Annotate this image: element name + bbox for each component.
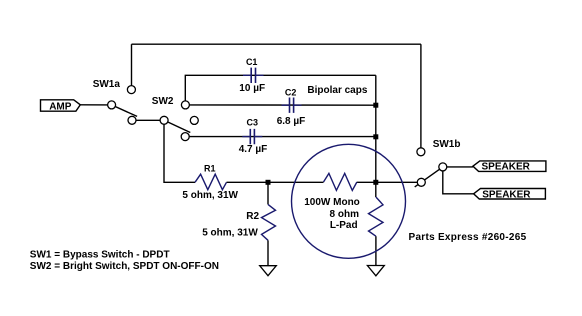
svg-text:SW1b: SW1b xyxy=(433,139,461,150)
svg-text:Parts Express #260-265: Parts Express #260-265 xyxy=(409,232,527,243)
svg-text:SW1a: SW1a xyxy=(93,79,121,90)
svg-text:4.7 µF: 4.7 µF xyxy=(239,144,268,155)
svg-text:C2: C2 xyxy=(285,88,297,98)
svg-text:SW1 = Bypass Switch - DPDT: SW1 = Bypass Switch - DPDT xyxy=(30,250,170,261)
svg-text:SPEAKER: SPEAKER xyxy=(482,162,531,173)
svg-text:R1: R1 xyxy=(204,163,216,173)
svg-text:SW2: SW2 xyxy=(152,96,174,107)
svg-text:R2: R2 xyxy=(246,211,259,222)
svg-text:C1: C1 xyxy=(246,57,258,67)
svg-text:AMP: AMP xyxy=(49,102,72,113)
svg-text:Bipolar caps: Bipolar caps xyxy=(307,85,367,96)
svg-text:8 ohm: 8 ohm xyxy=(330,209,360,220)
svg-text:L-Pad: L-Pad xyxy=(330,220,358,231)
svg-text:5 ohm, 31W: 5 ohm, 31W xyxy=(202,227,258,238)
svg-text:SW2 = Bright Switch, SPDT ON-O: SW2 = Bright Switch, SPDT ON-OFF-ON xyxy=(30,261,219,272)
svg-text:10 µF: 10 µF xyxy=(239,83,265,94)
svg-text:100W Mono: 100W Mono xyxy=(304,197,360,208)
svg-text:5 ohm, 31W: 5 ohm, 31W xyxy=(182,190,238,201)
svg-text:6.8 µF: 6.8 µF xyxy=(277,116,306,127)
svg-text:C3: C3 xyxy=(247,118,259,128)
svg-text:SPEAKER: SPEAKER xyxy=(482,189,531,200)
